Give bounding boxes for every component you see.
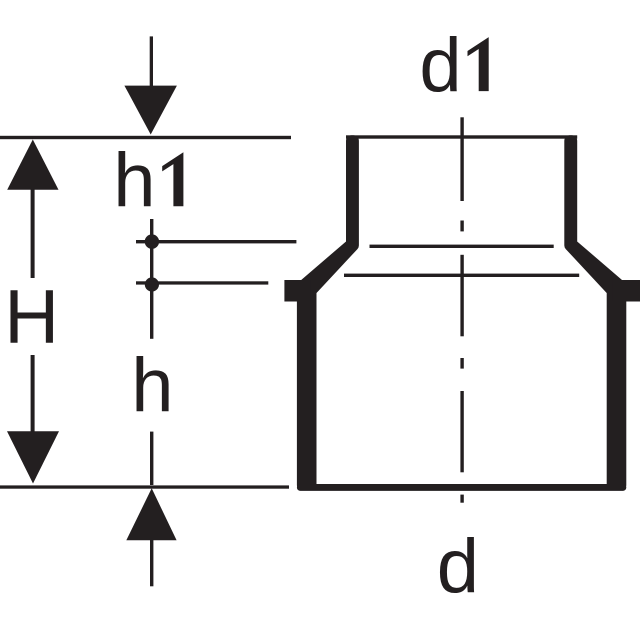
- svg-text:H: H: [4, 275, 59, 360]
- svg-text:d: d: [437, 524, 479, 609]
- fitting: shoulder line (inside, lower): [344, 274, 579, 277]
- dimension h1 arrow (down, above top line): [124, 36, 176, 134]
- svg-text:d: d: [419, 23, 461, 108]
- dimension h arrow (up, below bottom line): [126, 488, 176, 586]
- fitting: right wall (spigot wall, shoulder flare, socket wall): [570, 141, 621, 485]
- leader line upper level: [136, 240, 296, 243]
- label d1 digit: [468, 37, 489, 91]
- H arrow down: [7, 431, 59, 483]
- H arrow up: [7, 140, 58, 190]
- fitting: right lug: [613, 280, 640, 302]
- extension line bottom (level of socket end face): [0, 485, 289, 488]
- leader line lower level: [136, 281, 268, 284]
- fitting: left lug: [284, 280, 310, 302]
- fitting: socket end face (bottom edge): [297, 484, 626, 491]
- centre line (dash-dot): [460, 117, 463, 502]
- svg-text:h: h: [113, 138, 155, 223]
- dimension H line with gap for label: [7, 140, 59, 484]
- fitting: socket depth line (inside, upper): [370, 245, 554, 248]
- leader dot lower level: [145, 277, 159, 291]
- leader dot upper level: [145, 234, 159, 248]
- fitting: left wall (spigot wall, shoulder flare, socket wall): [302, 141, 353, 485]
- fitting: spigot mouth line (top edge): [346, 135, 577, 138]
- extension line top (level of spigot mouth): [0, 136, 291, 139]
- svg-text:h: h: [131, 343, 173, 428]
- dimension leader vertical line (h / levels): [150, 219, 153, 485]
- label h1 digit: [162, 152, 183, 206]
